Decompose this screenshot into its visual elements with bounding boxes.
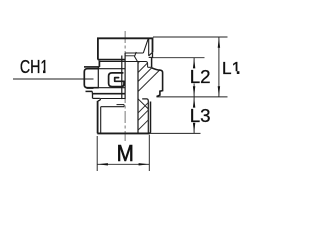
hatch hex region [138, 62, 139, 63]
section edge on centerline [124, 53, 126, 99]
svg-text:CH1: CH1 [20, 57, 48, 77]
cone cascade slant [135, 52, 139, 62]
svg-text:M: M [117, 140, 134, 167]
centerline [124, 31, 126, 141]
flange underside line [101, 98, 125, 100]
hex bottom edge main [92, 93, 125, 95]
hex symbol [109, 73, 124, 87]
hex bottom edge left [86, 90, 93, 92]
svg-text:L1: L1 [222, 58, 241, 78]
step above thread end [117, 104, 125, 106]
flange left edge [92, 94, 94, 99]
stud right minor hook [142, 99, 148, 133]
extension line stud bottom [150, 132, 201, 134]
nut inner line 2 [125, 55, 135, 57]
svg-text:L3: L3 [190, 105, 211, 126]
hex bottom step [91, 91, 93, 93]
dimension L1 line [218, 37, 220, 97]
nut right lower corner [152, 52, 154, 58]
hex top right and right edge [152, 68, 163, 97]
hex middle face top edge [98, 68, 125, 70]
dimension L3 line [193, 97, 195, 107]
hatch stud region [138, 103, 148, 113]
extension line nut bottom [153, 57, 205, 59]
stud bottom edge [97, 132, 149, 134]
extension line top [153, 36, 228, 38]
M extension left [96, 136, 98, 171]
stud right edge [149, 102, 150, 134]
flange bottom left [93, 97, 100, 99]
shelf [148, 66, 152, 68]
nut top outline [98, 38, 153, 59]
thread end line [101, 106, 124, 108]
bore wall [137, 62, 139, 132]
step connector [123, 105, 125, 107]
neck left edge [98, 61, 100, 67]
M extension right [148, 135, 150, 171]
collar right edge [151, 58, 153, 68]
leader line CH1 [13, 78, 94, 80]
nut bottom shoulder [98, 59, 125, 61]
stud thread run-in hook [98, 98, 101, 101]
thread chamfer line [138, 99, 148, 109]
nut corner diagonal [149, 52, 153, 56]
stud left minor line [100, 107, 102, 133]
neck top edge and cone seat step [99, 62, 147, 68]
nut bottom right segment [149, 56, 153, 58]
hex bottom step [87, 87, 94, 89]
stud left edge [97, 101, 99, 133]
nut chamfer diagonal [143, 39, 148, 53]
bore vertical near center [121, 56, 123, 100]
hex face line [97, 67, 99, 88]
nut inner vertical [148, 39, 150, 56]
M dimension line [97, 163, 149, 165]
hex middle face bottom edge [98, 87, 125, 89]
hex left face [84, 69, 98, 88]
svg-text:L2: L2 [190, 66, 211, 87]
dimension L2 line [193, 58, 195, 67]
extension line flange bottom [157, 96, 228, 98]
hex top left edge [84, 66, 99, 68]
nut inner line 1 [125, 52, 143, 54]
